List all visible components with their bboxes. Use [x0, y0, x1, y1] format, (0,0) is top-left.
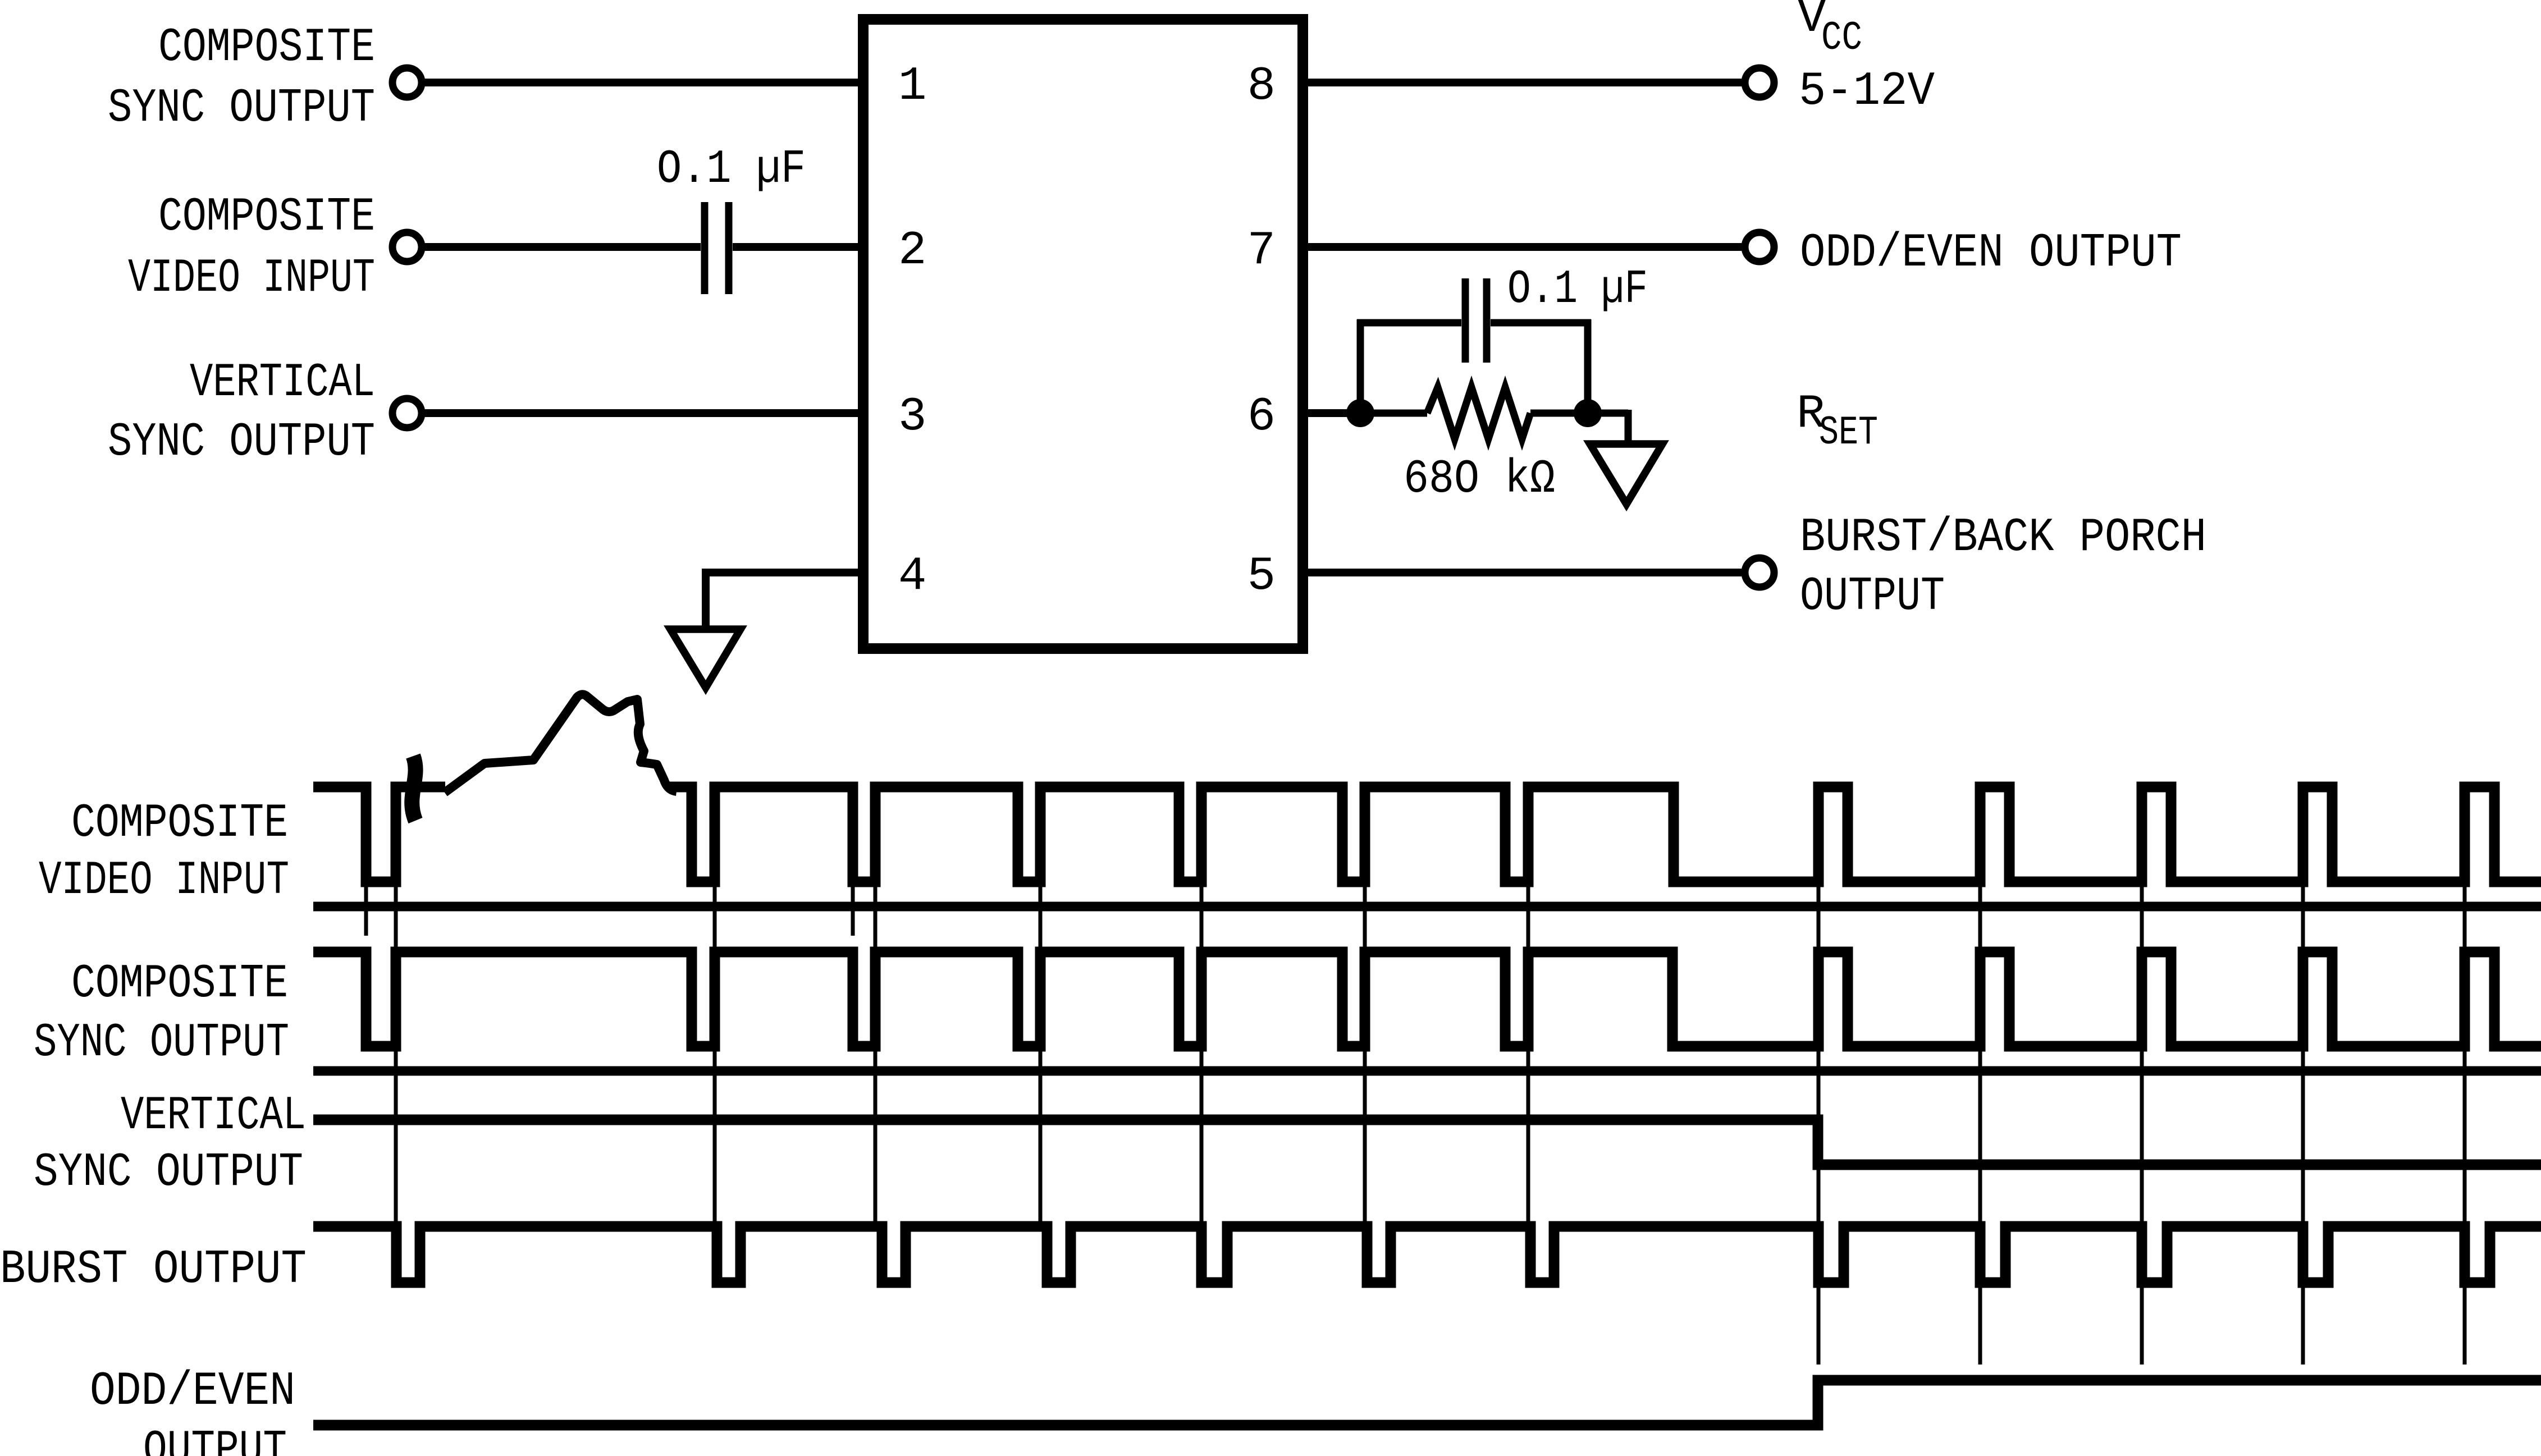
svg-text:COMPOSITE: COMPOSITE	[71, 797, 288, 850]
svg-text:5-12V: 5-12V	[1799, 65, 1935, 118]
svg-text:BURST/BACK PORCH: BURST/BACK PORCH	[1800, 511, 2206, 565]
svg-text:COMPOSITE: COMPOSITE	[158, 191, 375, 244]
svg-text:COMPOSITE: COMPOSITE	[71, 958, 288, 1011]
svg-text:VIDEO INPUT: VIDEO INPUT	[39, 854, 289, 908]
svg-text:2: 2	[898, 225, 926, 278]
svg-text:OUTPUT: OUTPUT	[1800, 570, 1945, 624]
svg-text:VERTICAL: VERTICAL	[121, 1089, 306, 1143]
svg-text:BURST OUTPUT: BURST OUTPUT	[0, 1243, 307, 1297]
svg-text:COMPOSITE: COMPOSITE	[158, 21, 375, 75]
svg-text:68O kΩ: 68O kΩ	[1404, 453, 1555, 506]
svg-text:6: 6	[1247, 391, 1276, 444]
svg-text:SET: SET	[1819, 410, 1878, 456]
svg-text:SYNC OUTPUT: SYNC OUTPUT	[34, 1146, 303, 1199]
svg-text:3: 3	[898, 391, 926, 444]
svg-text:VERTICAL: VERTICAL	[190, 356, 375, 410]
svg-text:VIDEO INPUT: VIDEO INPUT	[128, 252, 375, 305]
svg-text:5: 5	[1247, 550, 1276, 603]
svg-text:8: 8	[1247, 60, 1276, 113]
svg-text:ODD/EVEN OUTPUT: ODD/EVEN OUTPUT	[1800, 227, 2182, 280]
svg-text:CC: CC	[1821, 15, 1862, 61]
svg-text:OUTPUT: OUTPUT	[143, 1423, 287, 1456]
svg-text:SYNC OUTPUT: SYNC OUTPUT	[108, 82, 375, 135]
svg-text:ODD/EVEN: ODD/EVEN	[90, 1365, 295, 1418]
svg-text:SYNC OUTPUT: SYNC OUTPUT	[34, 1017, 289, 1070]
svg-text:O.1 µF: O.1 µF	[657, 143, 806, 196]
svg-text:7: 7	[1247, 225, 1276, 278]
svg-text:SYNC OUTPUT: SYNC OUTPUT	[108, 416, 375, 469]
svg-text:1: 1	[898, 60, 926, 113]
svg-text:4: 4	[898, 550, 926, 603]
svg-text:O.1 µF: O.1 µF	[1507, 263, 1648, 317]
